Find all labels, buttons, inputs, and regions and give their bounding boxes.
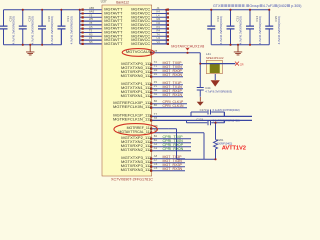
- svg-text:CR: CR: [240, 62, 244, 66]
